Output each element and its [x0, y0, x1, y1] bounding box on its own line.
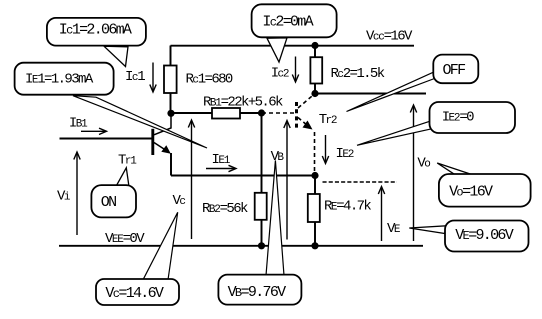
arrow Ic2: [292, 57, 298, 83]
svg-text:Vcc=16V: Vcc=16V: [366, 29, 413, 45]
node C (Vcc/Rc2): [311, 42, 318, 49]
arrow IB1: [81, 128, 107, 134]
svg-text:VE: VE: [387, 221, 401, 237]
arrow IE1: [206, 165, 236, 171]
wire RE top lead: [314, 176, 316, 195]
arrow Vi: [74, 152, 80, 235]
resistor RB1: [212, 108, 240, 119]
callout Ic1=2.06mA: [47, 18, 146, 67]
wire RB1 right: [240, 112, 262, 114]
wire emitter to node: [171, 175, 315, 177]
wire base Tr1: [60, 138, 152, 140]
svg-text:Ic2=0mA: Ic2=0mA: [262, 14, 313, 31]
wire RE bottom lead: [314, 222, 316, 246]
svg-text:RE=4.7k: RE=4.7k: [324, 199, 371, 215]
arrow VB: [284, 121, 290, 240]
svg-text:IB1: IB1: [69, 116, 88, 132]
svg-text:Vi: Vi: [57, 189, 71, 205]
dashed reference line VE level: [323, 181, 398, 183]
resistor Rc1: [164, 66, 177, 94]
arrow Ic1: [150, 63, 156, 93]
transistor Tr2 (dashed, off): [262, 94, 315, 175]
svg-text:ON: ON: [101, 194, 116, 211]
wire Rc2 top lead: [314, 46, 316, 58]
callout VE=9.06V: [409, 221, 528, 252]
arrow IE2: [322, 135, 328, 164]
svg-text:Tr1: Tr1: [118, 153, 137, 169]
callout Vc=14.6V: [96, 212, 179, 305]
svg-text:Rc1=680: Rc1=680: [186, 71, 233, 87]
svg-text:VB=9.76V: VB=9.76V: [228, 284, 287, 301]
arrow VE: [378, 187, 384, 242]
wire RB2 trunk: [261, 113, 263, 193]
transistor Tr1: [153, 113, 171, 155]
svg-text:RB1=22k+5.6k: RB1=22k+5.6k: [203, 95, 283, 111]
svg-text:Ic1: Ic1: [125, 69, 145, 85]
wire Rc2 bottom lead: [314, 84, 316, 94]
wire emitter Tr1 vertical: [170, 153, 172, 176]
svg-text:VB: VB: [271, 149, 285, 165]
wire collector output: [315, 93, 426, 95]
callout VB=9.76V: [218, 160, 301, 304]
wire RB1 left: [171, 112, 213, 114]
node B (RB1/RB2): [258, 109, 265, 116]
svg-text:Vc: Vc: [173, 193, 186, 209]
callout IE1=1.93mA: [15, 63, 207, 148]
resistor Rc2: [310, 57, 322, 83]
svg-text:Ic2: Ic2: [271, 66, 289, 82]
svg-text:VEE=0V: VEE=0V: [105, 231, 145, 247]
node D (Rc2/out): [311, 90, 318, 97]
node E (emitter/RE): [311, 172, 318, 179]
svg-text:IE1=1.93mA: IE1=1.93mA: [25, 72, 94, 88]
svg-text:IE2: IE2: [336, 146, 354, 162]
svg-text:Ic1=2.06mA: Ic1=2.06mA: [59, 22, 132, 39]
svg-text:Vo=16V: Vo=16V: [449, 184, 493, 201]
callout Vo=16V: [437, 163, 530, 207]
callout OFF: [347, 55, 479, 112]
resistor RE: [308, 194, 320, 222]
wire Vcc top rail: [171, 45, 415, 47]
svg-text:IE1: IE1: [212, 152, 231, 168]
svg-text:VE=9.06V: VE=9.06V: [455, 227, 514, 244]
arrow Vc: [188, 120, 194, 239]
svg-text:Vo: Vo: [417, 156, 430, 172]
callout Ic2=0mA: [252, 4, 337, 62]
svg-text:IE2=0: IE2=0: [442, 110, 474, 126]
callout IE2=0: [357, 102, 515, 145]
svg-text:OFF: OFF: [443, 62, 466, 79]
arrow Vo: [410, 105, 416, 241]
node A (Rc1/RB1): [167, 110, 174, 117]
wire VEE bottom rail: [59, 245, 423, 247]
svg-text:Vc=14.6V: Vc=14.6V: [105, 285, 164, 302]
node F (RB2/VEE): [258, 242, 265, 249]
resistor RB2: [255, 193, 267, 220]
node G (RE/VEE): [311, 242, 318, 249]
wire Rc1 bottom lead: [170, 93, 172, 113]
wire Rc1 top lead: [170, 46, 172, 67]
wire RB2 bottom lead: [261, 220, 263, 246]
callout ON: [91, 168, 136, 218]
svg-text:RB2=56k: RB2=56k: [202, 201, 248, 217]
svg-text:Rc2=1.5k: Rc2=1.5k: [331, 66, 385, 82]
svg-text:Tr2: Tr2: [319, 112, 337, 128]
